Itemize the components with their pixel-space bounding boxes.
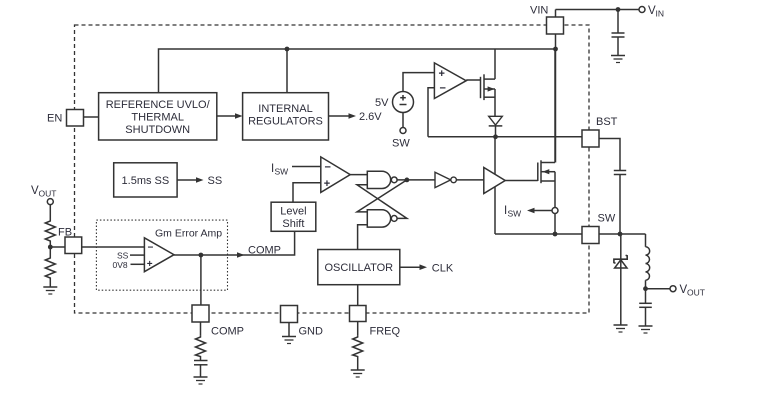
wire vout to divider [49, 205, 51, 219]
wire arrow SS [177, 179, 198, 181]
pin SW [582, 227, 599, 244]
wire cross couple A [357, 180, 407, 212]
node junction FB [48, 245, 53, 250]
diode D1 [489, 116, 503, 137]
diode D2 schottky [614, 234, 627, 325]
label ISW sense [504, 205, 521, 219]
svg-text:SW: SW [598, 213, 616, 225]
wire driver supply rails [494, 137, 496, 234]
wire sense to SW node [554, 214, 556, 235]
wire comp pin down [200, 322, 202, 336]
terminal VIN circle [639, 7, 645, 13]
wire rfreq to ground [357, 358, 359, 371]
ground CIN [611, 56, 625, 63]
svg-text:SHUTDOWN: SHUTDOWN [125, 124, 190, 136]
svg-text:OUT: OUT [687, 288, 705, 298]
svg-text:OSCILLATOR: OSCILLATOR [324, 262, 393, 274]
wire ISW to comparator minus [292, 166, 321, 168]
node junction nand1 out [405, 178, 410, 183]
inductor L1 [646, 234, 650, 289]
svg-text:REFERENCE UVLO/: REFERENCE UVLO/ [106, 99, 211, 111]
node junction on top bus [285, 47, 290, 52]
op-amp U1 [434, 63, 466, 99]
svg-text:−: − [325, 162, 331, 174]
resistor R2 [45, 257, 55, 280]
resistor Rfreq [353, 336, 363, 358]
wire BST to cap [599, 139, 620, 171]
node junction input cap [616, 7, 621, 12]
wire BST rail [428, 136, 582, 138]
inverter U3 [435, 172, 456, 187]
svg-text:OUT: OUT [39, 189, 57, 199]
wire VIN vertical [555, 10, 557, 163]
svg-text:REGULATORS: REGULATORS [248, 116, 323, 128]
wire driver to gate [505, 180, 538, 182]
wire freq pin down [357, 322, 359, 336]
svg-text:2.6V: 2.6V [359, 111, 382, 123]
svg-text:SW: SW [392, 138, 410, 150]
svg-text:GND: GND [299, 326, 324, 338]
ground freq [351, 370, 365, 377]
wire gm output to level shift [174, 231, 295, 255]
ground D2 [614, 325, 628, 332]
svg-text:THERMAL: THERMAL [131, 112, 184, 124]
wire arrow 2.6V [329, 115, 351, 117]
terminal SW circle [400, 128, 406, 134]
comparator U2 [321, 157, 350, 193]
wire 5V to op-amp plus [403, 73, 434, 92]
wire top bus y=49 [159, 49, 556, 93]
svg-text:Gm Error Amp: Gm Error Amp [155, 228, 222, 240]
svg-text:SS: SS [208, 175, 223, 187]
block reference uvlo [99, 93, 217, 140]
pin BST [582, 130, 599, 147]
wire EN to reference [84, 116, 99, 118]
op-amp Gm [144, 238, 174, 272]
capacitor CBST [614, 171, 626, 235]
pin GND [281, 306, 298, 323]
gate NAND1 [367, 171, 397, 188]
block 1.5ms SS [114, 163, 177, 197]
label ISW comparator [271, 163, 288, 177]
wire SW to inductor [599, 233, 646, 235]
svg-text:−: − [148, 243, 154, 254]
block internal regulators [243, 93, 329, 140]
pin EN [67, 110, 84, 127]
svg-text:CLK: CLK [432, 263, 454, 275]
block level shift [271, 202, 316, 231]
transistor Q1 [481, 74, 496, 116]
wire divider node [49, 242, 51, 257]
svg-text:EN: EN [47, 113, 62, 125]
svg-text:5V: 5V [375, 97, 389, 109]
arrow comp mid [237, 252, 245, 258]
svg-text:+: + [147, 259, 153, 270]
transistor Q2 [538, 49, 555, 208]
svg-text:VIN: VIN [530, 5, 548, 17]
pin VIN [547, 17, 564, 34]
svg-text:COMP: COMP [211, 326, 244, 338]
terminal VOUT left circle [47, 199, 53, 205]
gate NAND2 [367, 210, 397, 227]
node junction comp [199, 253, 204, 258]
svg-text:+: + [439, 68, 445, 80]
svg-text:Level: Level [280, 206, 306, 218]
svg-text:SW: SW [508, 209, 522, 219]
wire comparator to nand1 [350, 174, 367, 176]
wire inverter to driver [456, 179, 483, 181]
box Gm dotted [96, 220, 227, 290]
capacitor Ccomp [194, 358, 208, 378]
wire cross couple B [357, 185, 407, 219]
wire 5V to SW terminal [402, 113, 404, 128]
node junction bus/VIN [553, 47, 558, 52]
source 5V [393, 92, 414, 113]
wire comp to pin [200, 255, 202, 305]
node junction Q2 source [553, 232, 558, 237]
svg-text:+: + [324, 178, 330, 190]
wire gnd pin down [288, 323, 290, 337]
wire arrow reference to regulators [217, 115, 237, 117]
node junction VOUT [643, 286, 648, 291]
svg-text:FREQ: FREQ [370, 326, 401, 338]
wire 0V8 stub [131, 263, 145, 265]
svg-text:INTERNAL: INTERNAL [258, 103, 312, 115]
wire Q1 drain to bus [494, 49, 496, 79]
wire R2 to ground [49, 280, 51, 288]
wire VIN to external terminal [556, 9, 640, 11]
wire op-amp feedback [428, 88, 434, 137]
svg-text:1.5ms SS: 1.5ms SS [122, 175, 170, 187]
capacitor COUT [639, 289, 652, 326]
IC boundary dashed box [75, 25, 590, 313]
ground COUT [639, 326, 653, 333]
wire to VOUT terminal [646, 288, 671, 290]
wire SW rail [495, 233, 582, 235]
wire arrow CLK [400, 266, 422, 268]
wire op-amp output [466, 79, 480, 81]
wire oscillator to nand2 [358, 225, 368, 250]
ground GND pin [282, 337, 296, 344]
terminal VOUT circle [670, 286, 676, 292]
wire nand1 out to inverter [397, 179, 435, 181]
svg-text:BST: BST [596, 116, 618, 128]
ground comp [194, 377, 208, 384]
resistor Rcomp [196, 336, 206, 358]
wire SS stub [130, 254, 144, 256]
pin COMP [192, 305, 209, 322]
capacitor CIN [612, 10, 625, 56]
node junction BST/driver [493, 134, 498, 139]
pin FREQ [350, 306, 367, 322]
block oscillator [318, 250, 400, 285]
wire oscillator to freq pin [357, 285, 359, 306]
label VOUT right [680, 284, 705, 298]
wire FB to amp [50, 246, 144, 248]
pin FB [65, 237, 82, 254]
wire level shift to comparator plus [293, 183, 321, 203]
node ISW sense circle [552, 208, 558, 214]
svg-text:IN: IN [656, 9, 665, 19]
svg-text:−: − [440, 83, 446, 95]
svg-text:COMP: COMP [248, 245, 281, 257]
svg-text:SW: SW [275, 167, 289, 177]
resistor R1 [45, 219, 55, 242]
buffer driver U4 [484, 168, 505, 194]
ground divider [43, 287, 57, 294]
label VIN external [648, 5, 664, 19]
label VOUT left [31, 185, 56, 199]
node junction SW/cbst [618, 232, 623, 237]
svg-text:Shift: Shift [282, 218, 304, 230]
wire ISW sense arrow [533, 210, 552, 212]
svg-text:0V8: 0V8 [113, 260, 128, 270]
wire internal regulators top [286, 49, 288, 93]
